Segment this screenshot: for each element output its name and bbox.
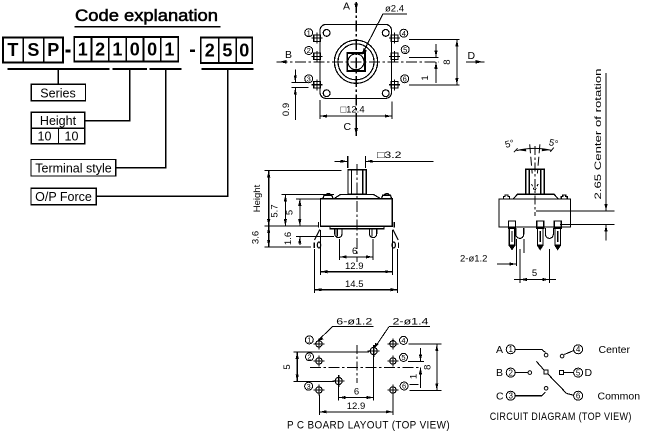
clip right xyxy=(393,222,395,228)
hole 6 xyxy=(387,385,398,396)
arrow C down xyxy=(355,119,357,136)
vertical centerline xyxy=(355,2,357,119)
svg-text:S: S xyxy=(27,40,39,60)
pcb number 1 xyxy=(305,336,313,345)
svg-text:0: 0 xyxy=(239,41,249,61)
contact 5 square xyxy=(559,371,563,375)
svg-text:□12.4: □12.4 xyxy=(340,105,364,116)
o/p force label box xyxy=(31,188,96,204)
wire height xyxy=(86,70,130,121)
pcb number 2 xyxy=(306,353,314,362)
wire 4 contact xyxy=(564,351,574,355)
side bump right xyxy=(561,195,567,199)
svg-text:4: 4 xyxy=(576,345,581,354)
svg-text:0: 0 xyxy=(130,40,140,60)
svg-text:14.5: 14.5 xyxy=(345,279,364,290)
hole center top (o1.4) xyxy=(368,345,380,357)
svg-text:C: C xyxy=(344,121,352,133)
svg-text:3.6: 3.6 xyxy=(251,231,262,244)
svg-text:5: 5 xyxy=(222,41,232,61)
hole 2 xyxy=(313,356,324,367)
svg-text:2.65 Center of rotation: 2.65 Center of rotation xyxy=(593,68,603,199)
pcb h centerline xyxy=(310,366,421,368)
svg-text:1.6: 1.6 xyxy=(283,232,294,245)
outer ring xyxy=(334,40,377,83)
contact B xyxy=(528,371,532,375)
wire C contact xyxy=(515,392,545,396)
svg-text:Series: Series xyxy=(40,86,75,100)
svg-text:6: 6 xyxy=(354,387,359,398)
svg-text:1: 1 xyxy=(78,40,88,60)
svg-text:4: 4 xyxy=(401,336,405,345)
underline group 4 (o/p force) xyxy=(202,68,254,70)
extension lines right xyxy=(409,40,460,85)
svg-text:6: 6 xyxy=(402,382,406,391)
node 3 xyxy=(506,391,515,400)
node 2 xyxy=(506,368,515,377)
svg-text:5: 5 xyxy=(285,210,296,215)
hole 4 xyxy=(387,338,398,349)
dim 5 pcb xyxy=(282,352,369,382)
dim height xyxy=(252,170,342,226)
terminal L1 xyxy=(312,33,323,44)
top view body xyxy=(320,24,392,98)
dash 2 xyxy=(190,49,195,52)
svg-text:1: 1 xyxy=(508,345,513,354)
side body xyxy=(499,199,571,227)
svg-text:12.9: 12.9 xyxy=(345,261,364,272)
side pins xyxy=(509,221,562,250)
svg-text:3: 3 xyxy=(508,392,513,401)
dim 8 pcb xyxy=(408,344,442,390)
pin right xyxy=(370,229,377,238)
arrow B left xyxy=(280,60,287,64)
dim 6 pcb xyxy=(339,356,374,401)
label 2-o1.4 xyxy=(374,317,430,350)
arc arrowhead right xyxy=(542,148,551,151)
terminal R5 xyxy=(389,51,400,62)
tilt centerline right xyxy=(537,144,540,173)
pin number 6 xyxy=(401,75,409,84)
svg-text:1: 1 xyxy=(420,75,431,80)
contact A xyxy=(544,353,548,357)
svg-text:10: 10 xyxy=(65,129,79,143)
wire 5 xyxy=(563,372,573,374)
svg-text:5.7: 5.7 xyxy=(270,204,281,217)
dash 1 xyxy=(65,50,70,53)
svg-text:2-ø1.4: 2-ø1.4 xyxy=(393,317,429,328)
side bump left xyxy=(504,195,510,199)
wire B contact xyxy=(515,372,527,374)
front view centerline xyxy=(356,164,358,262)
svg-text:Common: Common xyxy=(598,390,641,402)
svg-text:2: 2 xyxy=(95,40,105,60)
leader o2.4 xyxy=(363,14,408,54)
horizontal centerline xyxy=(277,61,439,63)
svg-text:Terminal style: Terminal style xyxy=(35,161,111,175)
svg-text:1: 1 xyxy=(112,40,122,60)
svg-text:D: D xyxy=(468,50,476,62)
dim 3.6 xyxy=(251,226,312,247)
svg-text:ø2.4: ø2.4 xyxy=(385,4,404,15)
stem xyxy=(348,170,366,195)
svg-text:Height: Height xyxy=(40,114,77,128)
svg-text:5: 5 xyxy=(403,45,407,54)
svg-text:1: 1 xyxy=(409,374,420,379)
pin number 3 xyxy=(305,75,313,84)
svg-text:0.9: 0.9 xyxy=(281,103,292,116)
pcb number 3 xyxy=(305,382,313,391)
body xyxy=(320,199,392,226)
svg-text:P C BOARD LAYOUT (TOP VIE: P C BOARD LAYOUT (TOP VIEW) xyxy=(287,420,450,432)
hole center left (o1.4) xyxy=(333,375,345,387)
svg-text:A: A xyxy=(343,1,350,13)
svg-text:5: 5 xyxy=(532,268,537,279)
tilt centerline left xyxy=(530,144,533,173)
pin number 5 xyxy=(401,45,409,54)
node 4 xyxy=(574,345,583,354)
clip left xyxy=(317,222,319,228)
pin number 2 xyxy=(305,46,313,55)
pcb number 5 xyxy=(400,353,408,362)
svg-text:2: 2 xyxy=(205,41,215,61)
svg-text:P: P xyxy=(47,40,59,60)
wire o/p force xyxy=(96,70,227,196)
svg-text:CIRCUIT DIAGRAM (TOP VIEW): CIRCUIT DIAGRAM (TOP VIEW) xyxy=(490,411,632,423)
dim 0.9 left xyxy=(281,70,309,121)
dim 12.9 front xyxy=(320,230,392,275)
wire A contact xyxy=(515,349,545,352)
arc arrowhead left xyxy=(518,149,527,152)
svg-text:5°: 5° xyxy=(504,138,516,151)
base step xyxy=(330,226,384,229)
dim 5 side xyxy=(514,249,556,283)
svg-text:Center: Center xyxy=(599,344,631,356)
dim 5.7 xyxy=(270,195,335,227)
pin s2 xyxy=(537,221,544,228)
inner ring xyxy=(338,44,374,80)
dim 1 pcb xyxy=(409,348,423,388)
svg-text:12.9: 12.9 xyxy=(347,401,366,412)
pin s1 xyxy=(509,221,516,228)
peg s1 xyxy=(516,228,524,238)
pcb number 6 xyxy=(400,382,408,391)
svg-text:1: 1 xyxy=(307,336,311,345)
hole 5 xyxy=(387,356,398,367)
hole 1 xyxy=(313,338,324,349)
underline group 3 (terminal style) xyxy=(150,68,182,70)
dashed arrow inside stem xyxy=(532,184,539,191)
contact 4 xyxy=(560,354,564,358)
dim 2.65 line xyxy=(560,73,615,241)
pcb v centerline xyxy=(356,345,358,383)
label 6-o1.2 xyxy=(318,317,374,342)
rivet right xyxy=(382,195,392,199)
svg-text:B: B xyxy=(285,49,292,61)
terminal R4 xyxy=(389,33,400,44)
rivet left xyxy=(323,195,333,199)
underline group 2 (height) xyxy=(112,68,147,70)
svg-text:6: 6 xyxy=(576,392,581,401)
svg-text:1: 1 xyxy=(307,28,311,37)
code letter boxes TSP xyxy=(3,38,63,63)
svg-text:Code explanation: Code explanation xyxy=(75,7,218,25)
svg-text:10: 10 xyxy=(38,129,52,143)
side stem centerline xyxy=(534,146,536,216)
terminal L2 xyxy=(312,51,323,62)
terminal L3 xyxy=(312,79,323,90)
svg-text:2: 2 xyxy=(307,353,311,362)
corner hole bottom-left xyxy=(323,90,330,97)
pin number 1 xyxy=(305,28,313,37)
svg-text:5°: 5° xyxy=(548,137,560,150)
svg-text:6-ø1.2: 6-ø1.2 xyxy=(336,317,372,328)
code digit boxes 121001 xyxy=(74,37,178,62)
dim 12.4 bottom xyxy=(320,100,392,119)
wire series tick xyxy=(57,70,59,84)
svg-text:B: B xyxy=(496,367,503,379)
pcb number 4 xyxy=(400,336,408,345)
peg s2 xyxy=(546,228,554,238)
svg-text:1: 1 xyxy=(164,40,174,60)
svg-text:3: 3 xyxy=(307,382,311,391)
actuator circle o2.4 xyxy=(348,54,364,70)
center of rotation line xyxy=(536,210,615,212)
dim 14.5 front xyxy=(315,249,398,293)
flange xyxy=(334,194,381,198)
pin left xyxy=(335,229,342,238)
tilt range arc xyxy=(514,148,554,153)
svg-text:8: 8 xyxy=(423,365,434,370)
svg-text:0: 0 xyxy=(147,40,157,60)
svg-text:5: 5 xyxy=(401,353,405,362)
svg-text:5: 5 xyxy=(282,364,293,369)
title Code explanation xyxy=(75,7,221,27)
svg-text:6: 6 xyxy=(403,75,407,84)
svg-text:A: A xyxy=(496,344,503,356)
node 1 xyxy=(506,345,515,354)
pin number 4 xyxy=(400,29,408,38)
contact C xyxy=(544,387,548,391)
corner hole top-left xyxy=(323,30,330,37)
svg-text:4: 4 xyxy=(402,29,406,38)
wire D arrow line xyxy=(466,61,485,63)
svg-text:□3.2: □3.2 xyxy=(377,150,402,161)
terminal style label box xyxy=(31,160,116,177)
svg-text:2: 2 xyxy=(307,46,311,55)
svg-text:8: 8 xyxy=(442,59,453,64)
svg-text:T: T xyxy=(7,40,18,60)
svg-text:2: 2 xyxy=(508,369,513,378)
svg-text:Height: Height xyxy=(252,184,263,212)
hole 3 xyxy=(313,385,324,396)
dim 1.6 xyxy=(283,232,334,245)
dim 6 front xyxy=(340,239,373,260)
terminal R6 xyxy=(389,79,400,90)
corner hole top-right xyxy=(382,30,389,37)
actuator square xyxy=(347,53,365,71)
svg-text:5: 5 xyxy=(576,369,581,378)
pin s3 xyxy=(554,221,561,228)
series label box xyxy=(31,84,85,101)
code digit boxes 250 xyxy=(201,38,253,64)
dim square3.2 xyxy=(335,150,434,168)
dim 8 right xyxy=(442,40,459,85)
rotor pole xyxy=(536,361,544,370)
wire terminal style xyxy=(116,70,166,168)
underline group 1 (series) xyxy=(8,68,110,70)
dim 12.9 pcb xyxy=(320,395,393,416)
node 6 xyxy=(574,391,583,400)
node 5 xyxy=(574,368,583,377)
svg-text:6: 6 xyxy=(352,246,357,257)
arrow D right xyxy=(476,60,483,64)
label 2-o1.2 xyxy=(460,239,524,266)
svg-text:2-ø1.2: 2-ø1.2 xyxy=(460,254,487,265)
svg-text:C: C xyxy=(496,390,504,402)
height label box xyxy=(31,112,84,128)
side flange xyxy=(513,194,558,199)
arrow A down xyxy=(354,4,358,11)
height value box 10 10 xyxy=(31,128,84,144)
side stem xyxy=(526,169,545,194)
svg-text:O/P Force: O/P Force xyxy=(35,190,92,204)
svg-text:D: D xyxy=(585,367,593,379)
wire 6 xyxy=(567,393,574,395)
dim 1 right xyxy=(420,44,438,83)
dim 5 xyxy=(285,199,321,226)
corner hole bottom-right xyxy=(382,90,389,97)
